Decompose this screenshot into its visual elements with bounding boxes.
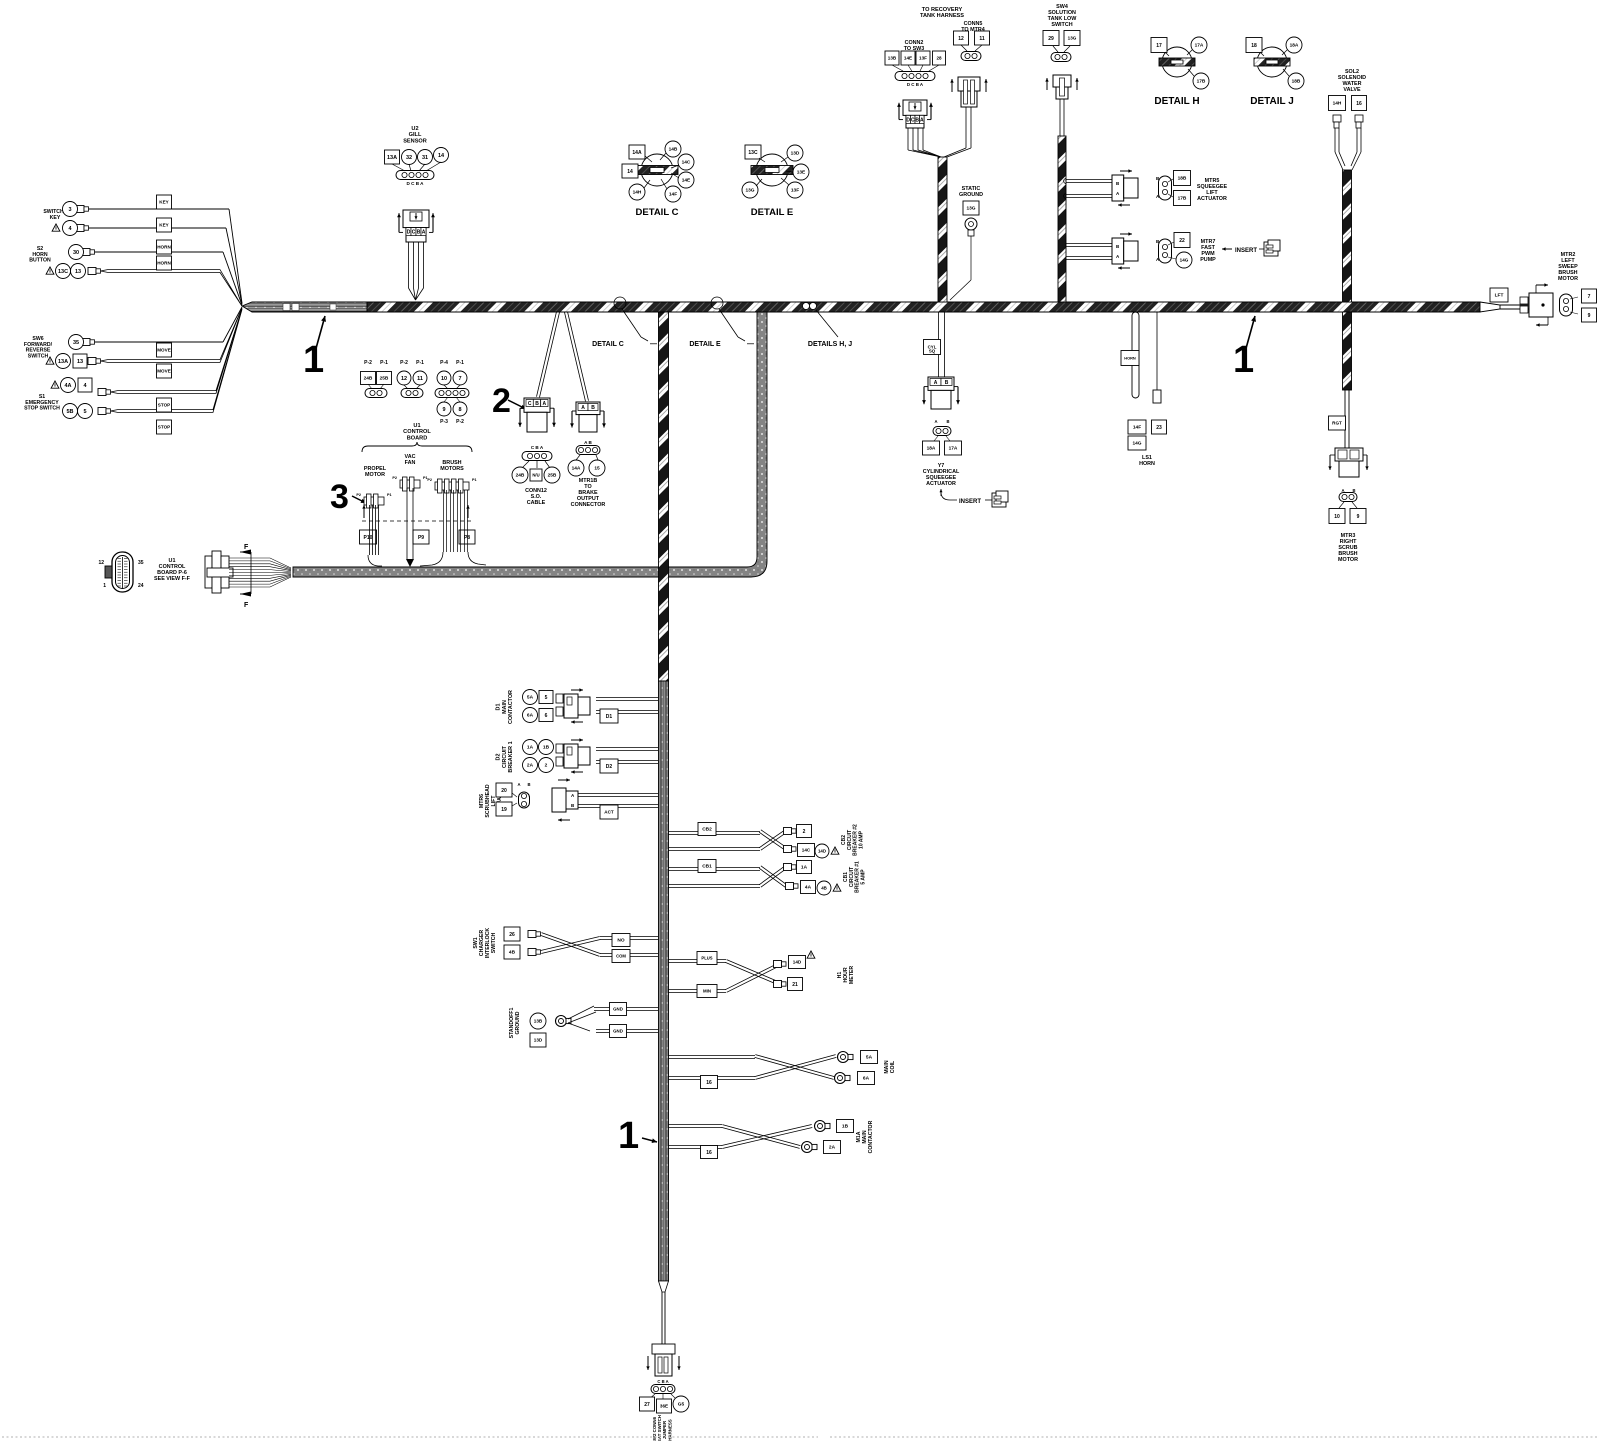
svg-text:2A: 2A <box>829 1145 836 1151</box>
svg-text:C: C <box>911 117 915 123</box>
svg-text:F: F <box>244 602 249 609</box>
svg-text:14C: 14C <box>802 848 811 853</box>
svg-text:CIRCUIT: CIRCUIT <box>502 745 508 768</box>
svg-text:MOVE: MOVE <box>157 369 171 374</box>
svg-text:PUMP: PUMP <box>1200 257 1216 263</box>
svg-text:N/U: N/U <box>532 473 539 478</box>
svg-text:NO: NO <box>617 938 624 944</box>
svg-text:14: 14 <box>627 169 633 175</box>
svg-text:18: 18 <box>1251 43 1257 49</box>
svg-text:MOTOR: MOTOR <box>1558 276 1578 282</box>
svg-text:13D: 13D <box>791 151 800 157</box>
svg-text:24: 24 <box>138 583 144 589</box>
svg-text:29: 29 <box>1048 36 1054 42</box>
svg-text:4A: 4A <box>805 885 812 891</box>
svg-text:14B: 14B <box>669 147 678 153</box>
svg-text:10: 10 <box>1334 514 1340 520</box>
svg-text:DETAIL J: DETAIL J <box>1250 96 1294 107</box>
svg-text:P-3: P-3 <box>440 419 448 425</box>
svg-text:HORN: HORN <box>157 261 171 266</box>
svg-text:MIN: MIN <box>703 989 711 994</box>
svg-text:14H: 14H <box>1333 101 1342 107</box>
svg-text:1: 1 <box>618 1115 639 1157</box>
svg-text:17: 17 <box>1156 43 1162 49</box>
svg-text:5: 5 <box>545 695 548 701</box>
svg-text:HARNESS: HARNESS <box>667 1419 672 1441</box>
svg-text:D: D <box>906 117 910 123</box>
svg-text:A: A <box>422 230 426 236</box>
svg-text:7: 7 <box>1588 294 1591 300</box>
svg-text:5A: 5A <box>527 695 534 701</box>
svg-text:12: 12 <box>958 36 964 42</box>
svg-text:P2: P2 <box>392 476 397 480</box>
svg-text:35: 35 <box>138 560 144 566</box>
svg-text:SWITCH: SWITCH <box>1051 22 1072 28</box>
svg-text:SWITCH: SWITCH <box>28 353 49 359</box>
svg-text:18A: 18A <box>1290 43 1299 49</box>
svg-text:B: B <box>1352 488 1355 493</box>
svg-text:1B: 1B <box>842 1124 849 1130</box>
svg-text:FAN: FAN <box>405 460 416 466</box>
svg-text:GND: GND <box>613 1029 623 1034</box>
svg-text:13: 13 <box>77 359 83 365</box>
svg-text:P-1: P-1 <box>456 360 464 366</box>
svg-text:A B: A B <box>584 440 592 445</box>
svg-text:P8: P8 <box>464 535 470 541</box>
svg-text:B: B <box>417 230 421 236</box>
svg-text:B: B <box>591 405 595 411</box>
svg-text:11: 11 <box>417 376 423 382</box>
svg-text:DETAIL C: DETAIL C <box>592 341 624 348</box>
svg-text:6A: 6A <box>863 1076 870 1082</box>
svg-text:KEY: KEY <box>159 223 168 228</box>
svg-text:HORN: HORN <box>157 245 171 250</box>
svg-text:P-4: P-4 <box>440 360 448 366</box>
svg-text:DETAIL H: DETAIL H <box>1154 96 1199 107</box>
svg-text:MOTORS: MOTORS <box>440 466 464 472</box>
svg-text:35: 35 <box>73 340 79 346</box>
svg-text:14D: 14D <box>818 849 826 854</box>
svg-text:20: 20 <box>501 788 507 794</box>
svg-text:14E: 14E <box>682 178 691 184</box>
svg-text:11: 11 <box>979 36 985 42</box>
svg-text:D2: D2 <box>496 754 502 761</box>
svg-text:P10: P10 <box>364 535 373 541</box>
svg-text:B: B <box>527 782 530 787</box>
svg-text:14G: 14G <box>1180 258 1189 263</box>
svg-text:13G: 13G <box>745 188 754 194</box>
svg-text:14A: 14A <box>572 466 581 472</box>
svg-text:MAIN: MAIN <box>502 700 508 714</box>
svg-text:COM: COM <box>616 954 626 959</box>
svg-text:D1: D1 <box>496 704 502 711</box>
svg-text:VALVE: VALVE <box>1343 87 1361 93</box>
svg-text:KEY: KEY <box>50 215 61 221</box>
svg-text:GILL: GILL <box>409 132 422 138</box>
svg-text:9: 9 <box>442 407 445 413</box>
svg-text:DETAIL E: DETAIL E <box>751 207 793 218</box>
svg-text:13F: 13F <box>919 56 927 61</box>
svg-text:12: 12 <box>401 376 407 382</box>
svg-text:18B: 18B <box>1178 176 1187 182</box>
svg-text:6: 6 <box>545 713 548 719</box>
svg-text:CONTACTOR: CONTACTOR <box>508 690 514 724</box>
svg-text:P-2: P-2 <box>400 360 408 366</box>
svg-text:METER: METER <box>849 966 855 984</box>
svg-text:CB1: CB1 <box>702 864 712 870</box>
svg-text:STOP: STOP <box>158 425 170 430</box>
svg-text:19: 19 <box>501 807 507 813</box>
svg-text:STOP: STOP <box>158 403 170 408</box>
svg-text:KEY: KEY <box>159 200 168 205</box>
svg-text:17B: 17B <box>1178 196 1187 202</box>
svg-text:1: 1 <box>103 583 106 589</box>
svg-text:18A: 18A <box>927 446 936 452</box>
svg-text:14H: 14H <box>633 190 642 196</box>
svg-text:D2: D2 <box>606 764 613 770</box>
svg-text:18B: 18B <box>1292 79 1301 85</box>
svg-text:28: 28 <box>936 56 942 61</box>
svg-text:P2: P2 <box>427 478 432 482</box>
svg-text:13: 13 <box>75 269 81 275</box>
svg-text:24B: 24B <box>364 376 373 382</box>
svg-text:P-1: P-1 <box>380 360 388 366</box>
svg-text:P1: P1 <box>472 478 477 482</box>
svg-text:A: A <box>542 401 546 407</box>
svg-text:D C B A: D C B A <box>907 82 924 87</box>
svg-text:A: A <box>581 405 585 411</box>
svg-text:15: 15 <box>594 466 600 472</box>
svg-text:B: B <box>535 401 539 407</box>
svg-text:25B: 25B <box>380 376 389 382</box>
svg-text:MOTOR: MOTOR <box>1338 557 1358 563</box>
svg-text:2A: 2A <box>527 763 534 769</box>
svg-text:1: 1 <box>1233 339 1254 381</box>
svg-text:A: A <box>517 782 520 787</box>
svg-text:1: 1 <box>303 339 324 381</box>
svg-text:13A: 13A <box>387 155 397 161</box>
svg-text:9: 9 <box>1588 313 1591 319</box>
svg-text:COIL: COIL <box>890 1060 896 1073</box>
svg-text:CONNECTOR: CONNECTOR <box>571 502 606 508</box>
svg-text:5B: 5B <box>66 409 73 415</box>
svg-text:U2: U2 <box>411 126 418 132</box>
svg-text:16: 16 <box>1356 101 1362 107</box>
svg-text:D: D <box>407 230 411 236</box>
svg-text:14A: 14A <box>632 150 642 156</box>
svg-text:9: 9 <box>1357 514 1360 520</box>
svg-text:A: A <box>1341 488 1344 493</box>
svg-text:3: 3 <box>68 207 71 213</box>
svg-text:P9: P9 <box>418 535 424 541</box>
svg-text:5: 5 <box>83 409 86 415</box>
svg-text:13D: 13D <box>534 1038 543 1043</box>
svg-text:INSERT: INSERT <box>959 499 981 505</box>
svg-text:13C: 13C <box>58 269 68 275</box>
svg-text:26: 26 <box>509 932 515 938</box>
svg-text:TO RECOVERY: TO RECOVERY <box>922 7 963 13</box>
svg-text:2: 2 <box>492 382 511 420</box>
svg-text:DETAIL C: DETAIL C <box>636 207 679 218</box>
svg-text:13B: 13B <box>888 56 897 61</box>
svg-text:CONTROL: CONTROL <box>403 429 431 435</box>
svg-text:ACTUATOR: ACTUATOR <box>926 481 956 487</box>
svg-text:D C B A: D C B A <box>407 181 425 186</box>
svg-text:17A: 17A <box>1195 43 1204 49</box>
svg-text:P1: P1 <box>387 493 392 497</box>
svg-text:A: A <box>934 380 938 386</box>
svg-text:1B: 1B <box>543 745 550 751</box>
svg-text:24B: 24B <box>516 473 525 479</box>
svg-text:12: 12 <box>98 560 104 566</box>
svg-text:A: A <box>920 117 924 123</box>
svg-text:D1: D1 <box>606 714 613 720</box>
svg-text:PLUS: PLUS <box>701 956 712 961</box>
svg-text:1A: 1A <box>527 745 534 751</box>
svg-text:13A: 13A <box>58 359 68 365</box>
svg-text:DETAILS H, J: DETAILS H, J <box>808 341 852 348</box>
svg-text:31: 31 <box>422 155 428 161</box>
svg-text:HORN: HORN <box>1139 461 1155 467</box>
svg-text:—: — <box>747 341 754 348</box>
svg-text:P-2: P-2 <box>456 419 464 425</box>
svg-text:10: 10 <box>441 376 447 382</box>
svg-text:16: 16 <box>706 1150 712 1156</box>
svg-text:30: 30 <box>73 250 79 256</box>
svg-text:13F: 13F <box>791 188 799 194</box>
svg-text:ACTUATOR: ACTUATOR <box>1197 196 1227 202</box>
svg-text:CABLE: CABLE <box>527 500 546 506</box>
svg-text:7: 7 <box>458 376 461 382</box>
svg-text:14: 14 <box>438 153 445 159</box>
svg-text:F: F <box>244 544 249 551</box>
svg-text:17A: 17A <box>949 446 958 452</box>
svg-text:14D: 14D <box>793 960 802 965</box>
svg-text:SEE VIEW F-F: SEE VIEW F-F <box>154 576 191 582</box>
svg-text:G5: G5 <box>678 1402 685 1408</box>
svg-text:4B: 4B <box>821 886 827 891</box>
svg-text:8: 8 <box>458 407 461 413</box>
svg-text:4A: 4A <box>64 383 71 389</box>
svg-text:C B A: C B A <box>531 445 544 450</box>
svg-text:14G: 14G <box>1132 441 1141 447</box>
svg-text:INSERT: INSERT <box>1235 248 1257 254</box>
svg-text:14C: 14C <box>682 160 691 166</box>
svg-text:STOP SWITCH: STOP SWITCH <box>24 406 60 412</box>
svg-text:C B A: C B A <box>657 1379 668 1384</box>
svg-text:P-2: P-2 <box>364 360 372 366</box>
svg-text:P2: P2 <box>356 493 361 497</box>
svg-text:16: 16 <box>706 1080 712 1086</box>
svg-text:22: 22 <box>1179 238 1185 244</box>
svg-text:CONTACTOR: CONTACTOR <box>868 1120 874 1153</box>
svg-text:25B: 25B <box>548 473 557 479</box>
svg-text:GND: GND <box>613 1007 623 1012</box>
svg-text:14F: 14F <box>669 192 677 198</box>
svg-text:ACT: ACT <box>604 810 614 815</box>
svg-text:2: 2 <box>545 763 548 769</box>
svg-text:MOVE: MOVE <box>157 348 171 353</box>
svg-text:B: B <box>945 380 949 386</box>
svg-text:BUTTON: BUTTON <box>29 258 51 264</box>
svg-text:MOTOR: MOTOR <box>365 472 385 478</box>
svg-text:27: 27 <box>644 1402 650 1408</box>
svg-text:CB2: CB2 <box>702 827 712 833</box>
svg-text:BREAKER 1: BREAKER 1 <box>508 741 514 772</box>
svg-text:5 AMP: 5 AMP <box>861 869 867 885</box>
svg-text:DETAIL E: DETAIL E <box>689 341 721 348</box>
svg-text:13E: 13E <box>797 170 806 176</box>
svg-text:32: 32 <box>406 155 412 161</box>
svg-text:13C: 13C <box>748 150 758 156</box>
svg-text:B: B <box>915 117 919 123</box>
svg-text:14E: 14E <box>904 56 912 61</box>
svg-text:SQ: SQ <box>929 349 936 354</box>
svg-text:21: 21 <box>792 982 798 988</box>
svg-text:A: A <box>934 419 937 424</box>
svg-text:B: B <box>946 419 949 424</box>
svg-text:—: — <box>650 341 657 348</box>
svg-text:C: C <box>412 230 416 236</box>
svg-text:LFT: LFT <box>1495 293 1504 299</box>
svg-text:2: 2 <box>803 829 806 835</box>
svg-text:10 AMP: 10 AMP <box>859 830 865 849</box>
svg-text:GROUND: GROUND <box>515 1011 521 1034</box>
svg-text:RGT: RGT <box>1332 421 1342 426</box>
svg-text:C: C <box>528 401 532 407</box>
svg-text:13G: 13G <box>1068 36 1077 41</box>
svg-text:TANK HARNESS: TANK HARNESS <box>920 13 964 19</box>
svg-text:1A: 1A <box>801 865 808 871</box>
svg-text:6A: 6A <box>527 713 534 719</box>
svg-text:HORN: HORN <box>1124 355 1136 360</box>
svg-text:23: 23 <box>1156 425 1162 431</box>
svg-text:14F: 14F <box>1133 425 1141 431</box>
svg-text:SENSOR: SENSOR <box>403 138 427 144</box>
svg-text:U1: U1 <box>413 423 420 429</box>
svg-text:13G: 13G <box>966 206 975 212</box>
svg-text:P-1: P-1 <box>416 360 424 366</box>
svg-text:BOARD: BOARD <box>407 435 428 441</box>
svg-text:SWITCH: SWITCH <box>491 933 497 954</box>
svg-text:17B: 17B <box>1197 79 1206 85</box>
svg-text:4B: 4B <box>509 950 516 956</box>
svg-text:36E: 36E <box>660 1404 668 1409</box>
svg-text:13B: 13B <box>534 1019 543 1024</box>
svg-text:5A: 5A <box>866 1055 873 1061</box>
svg-text:GROUND: GROUND <box>959 192 983 198</box>
svg-text:3: 3 <box>330 478 349 516</box>
